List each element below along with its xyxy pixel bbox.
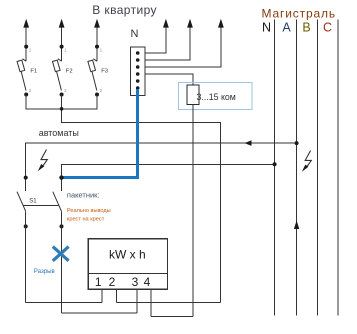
wire F1-F3 join — [26, 95, 97, 109]
wire F2 top — [61, 21, 63, 61]
svg-text:3...15 ком: 3...15 ком — [197, 92, 236, 102]
wire S1 left to meter t1 — [26, 301, 102, 303]
svg-text:kW x h: kW x h — [109, 248, 146, 262]
arrow up on bus A — [294, 221, 299, 230]
wire block to arrow 2 — [145, 21, 190, 60]
node F3 pin2 — [95, 93, 99, 97]
wire neutral blue — [62, 89, 138, 178]
wire block to arrow 3 — [145, 21, 221, 67]
break mark X — [53, 247, 69, 261]
node F1 pin1 — [24, 45, 28, 49]
meter kWh — [88, 239, 167, 289]
svg-text:3: 3 — [132, 275, 139, 289]
svg-text:F1: F1 — [30, 69, 37, 75]
node S1 left bottom — [24, 224, 28, 228]
svg-text:S1: S1 — [29, 199, 37, 205]
terminal block dots — [136, 51, 140, 90]
node bus N junction — [273, 162, 277, 166]
bus N line — [274, 20, 276, 316]
meter terminal numbers — [95, 275, 151, 289]
svg-text:N: N — [262, 21, 271, 35]
lightning strike right — [305, 151, 311, 169]
wire S1 right to meter t3 — [62, 312, 137, 314]
fuse F1 — [17, 59, 26, 91]
wire S1 left bottom — [25, 211, 27, 302]
svg-text:автоматы: автоматы — [39, 128, 79, 138]
wire S1 right bottom — [61, 211, 63, 313]
svg-text:2: 2 — [109, 275, 116, 289]
svg-text:C: C — [323, 21, 332, 35]
svg-text:A: A — [282, 21, 291, 35]
pin labels fuses — [29, 48, 103, 94]
bus B line — [317, 20, 319, 316]
switch S1 pole right — [53, 192, 62, 212]
callout box resistor value — [179, 83, 253, 110]
wire block to resistor — [145, 74, 193, 85]
wire F2 to meter riser — [62, 95, 221, 303]
wire meter t2 stub — [115, 289, 117, 302]
svg-text:Разрыв: Разрыв — [34, 268, 55, 275]
svg-text:F2: F2 — [66, 69, 73, 75]
svg-text:B: B — [302, 21, 310, 35]
node F2 pin2 — [60, 93, 64, 97]
svg-text:В квартиру: В квартиру — [92, 3, 157, 17]
svg-text:пакетник:: пакетник: — [67, 191, 100, 200]
svg-text:F3: F3 — [101, 69, 108, 75]
svg-text:4: 4 — [144, 275, 151, 289]
wire resistor down — [192, 105, 194, 317]
svg-text:Магистраль: Магистраль — [262, 6, 336, 20]
wire F3 top — [96, 21, 98, 61]
svg-text:крест на крест: крест на крест — [67, 217, 105, 223]
node bus A junction — [295, 141, 299, 145]
node F2 pin1 — [60, 45, 64, 49]
bus C line — [337, 20, 339, 316]
arrow neutral 2 — [187, 19, 193, 28]
wire meter t4 stub — [150, 289, 152, 316]
arrow to apartment phase 3 — [94, 19, 100, 28]
wire meter t2 to F2 riser — [116, 301, 220, 303]
node S1 right bottom — [60, 224, 64, 228]
wire meter t1 stub — [101, 289, 103, 302]
switch S1 pole left — [17, 192, 26, 212]
terminal block N — [131, 47, 146, 96]
fuse F3 — [88, 59, 97, 91]
resistor R bypass — [187, 85, 199, 105]
bus A line — [296, 20, 298, 316]
meter divider — [88, 272, 167, 274]
arrow neutral 3 — [218, 19, 224, 28]
arrow to apartment phase 2 — [59, 19, 65, 28]
wire S1 right to bus N — [62, 164, 275, 191]
node F3 pin1 — [95, 45, 99, 49]
wire meter t4 to resistor — [151, 316, 193, 318]
fuse F2 — [52, 59, 61, 91]
wire F1 top — [25, 21, 27, 61]
svg-text:Реально выводы: Реально выводы — [67, 208, 111, 214]
node S1 left top — [24, 176, 28, 180]
node S1 right top — [59, 175, 63, 179]
wire breaker feed to bus A — [26, 143, 297, 191]
node F1 pin2 — [24, 93, 28, 97]
wire block to arrow 1 — [145, 21, 166, 53]
switch S1 coupling bar — [23, 204, 59, 206]
arrow neutral 1 — [163, 19, 169, 28]
arrow to apartment phase 1 — [23, 19, 29, 28]
svg-text:1: 1 — [95, 275, 102, 289]
svg-text:N: N — [131, 28, 139, 40]
node fuse join — [60, 107, 64, 111]
wire meter t3 stub — [136, 289, 138, 313]
arrow on breaker feed line — [245, 140, 252, 146]
lightning strike left — [41, 150, 47, 168]
